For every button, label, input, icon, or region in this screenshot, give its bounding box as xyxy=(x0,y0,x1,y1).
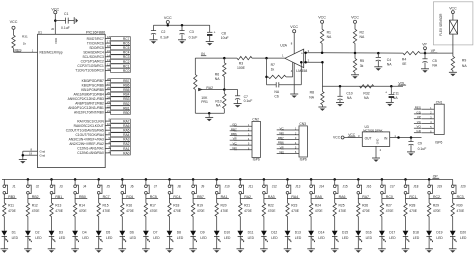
svg-text:470E: 470E xyxy=(409,209,418,213)
LED D12 xyxy=(261,231,278,243)
svg-text:15: 15 xyxy=(107,49,110,53)
wire xyxy=(98,236,100,248)
resistor R8 xyxy=(309,86,324,107)
jumper J10 xyxy=(215,184,230,194)
junction xyxy=(192,178,195,181)
U2A V- pin 4 / wire xyxy=(291,63,294,94)
svg-text:D17: D17 xyxy=(389,231,395,235)
net label OP xyxy=(432,175,439,179)
U1 pin 5 / net RA3 xyxy=(69,136,131,142)
svg-text:D6: D6 xyxy=(130,231,134,235)
wire xyxy=(51,217,53,231)
resistor R12 470E xyxy=(26,203,40,217)
U1 pin 9 / net RA7 xyxy=(77,118,130,124)
wire xyxy=(3,236,5,248)
resistor R23 470E xyxy=(286,203,300,217)
U1 pin 10 / net RA6 xyxy=(74,122,131,128)
svg-text:R13: R13 xyxy=(55,203,61,207)
ground xyxy=(1,249,9,253)
capacitor C7 0.1uF xyxy=(224,90,252,104)
U1 pin 6 / net RA4 xyxy=(75,131,130,137)
wire xyxy=(452,236,454,248)
wire xyxy=(310,236,312,248)
resistor R32 xyxy=(360,85,374,101)
U1 pin 22 / net RB1 xyxy=(68,104,130,110)
testpoint VCCO xyxy=(333,136,344,140)
capacitor C4 xyxy=(376,53,393,67)
resistor R29 470E xyxy=(427,203,441,217)
svg-text:NA: NA xyxy=(274,90,279,94)
svg-text:0.1uF: 0.1uF xyxy=(61,26,70,30)
svg-text:13: 13 xyxy=(107,58,110,62)
svg-text:RC1: RC1 xyxy=(123,64,130,68)
wire xyxy=(357,194,359,203)
svg-text:D8: D8 xyxy=(177,231,181,235)
svg-text:24: 24 xyxy=(107,95,110,99)
svg-text:RA7: RA7 xyxy=(123,120,130,124)
wire xyxy=(334,217,336,231)
svg-text:VCC: VCC xyxy=(333,136,341,140)
net label RB0 xyxy=(75,195,88,199)
resistor R2 xyxy=(353,23,365,53)
svg-text:470E: 470E xyxy=(32,209,41,213)
ground xyxy=(71,249,79,253)
svg-text:C1: C1 xyxy=(64,12,68,16)
ground xyxy=(421,69,429,73)
svg-text:LED: LED xyxy=(271,236,278,240)
wire xyxy=(381,194,383,203)
svg-text:D15: D15 xyxy=(342,231,348,235)
resistor R7 1k xyxy=(267,63,293,79)
wire xyxy=(3,217,5,231)
svg-text:470E: 470E xyxy=(8,209,17,213)
wire xyxy=(192,236,194,248)
wire xyxy=(216,217,218,231)
svg-text:470E: 470E xyxy=(55,209,64,213)
ground xyxy=(336,103,344,107)
junction xyxy=(397,136,400,139)
jumper J11 xyxy=(239,184,253,194)
wire xyxy=(334,179,336,184)
svg-text:LED: LED xyxy=(248,236,255,240)
U2A - input wire xyxy=(304,58,323,62)
wire xyxy=(405,236,407,248)
svg-text:NA: NA xyxy=(327,35,332,39)
wire xyxy=(239,236,241,248)
svg-text:J10: J10 xyxy=(225,184,230,188)
ground xyxy=(142,249,150,253)
svg-text:LED: LED xyxy=(12,236,19,240)
wire xyxy=(405,194,407,203)
svg-text:J12: J12 xyxy=(272,184,277,188)
svg-text:RC0: RC0 xyxy=(123,69,130,73)
svg-text:R21: R21 xyxy=(244,203,250,207)
capacitor C3 0.1uF xyxy=(179,25,197,40)
junction xyxy=(428,178,431,181)
ground xyxy=(355,249,363,253)
wire xyxy=(428,217,430,231)
wire xyxy=(405,217,407,231)
ground xyxy=(318,107,326,111)
svg-text:KBI1/PGM/RB5: KBI1/PGM/RB5 xyxy=(81,88,104,92)
wire decoupling rail xyxy=(154,24,210,26)
svg-text:10: 10 xyxy=(107,122,110,126)
svg-text:J11: J11 xyxy=(248,184,253,188)
svg-text:J8: J8 xyxy=(177,184,181,188)
wire xyxy=(192,217,194,231)
LED D16 xyxy=(355,231,372,243)
svg-text:RB3: RB3 xyxy=(123,97,130,101)
svg-text:J20: J20 xyxy=(461,184,466,188)
resistor R11 470E xyxy=(3,203,17,217)
resistor R14 470E xyxy=(73,203,87,217)
wire IN line xyxy=(195,57,237,59)
svg-text:+: + xyxy=(214,30,216,34)
svg-text:470E: 470E xyxy=(457,209,466,213)
svg-text:26: 26 xyxy=(107,86,110,90)
wire xyxy=(169,217,171,231)
net label RC3 xyxy=(452,195,465,199)
jumper J16 xyxy=(357,184,372,194)
junction xyxy=(390,85,393,88)
U3 pin 3 number xyxy=(358,134,360,138)
LED D2 xyxy=(25,231,42,243)
svg-text:D16: D16 xyxy=(366,231,372,235)
svg-text:J16: J16 xyxy=(366,184,371,188)
svg-text:RB0: RB0 xyxy=(123,111,130,115)
U1 pin 7 / net RA5 xyxy=(66,127,131,133)
LED D11 xyxy=(237,231,254,243)
svg-text:R11: R11 xyxy=(8,203,14,207)
svg-text:LED: LED xyxy=(295,236,302,240)
junction xyxy=(286,178,289,181)
junction xyxy=(27,178,30,181)
svg-text:NA: NA xyxy=(360,35,365,39)
svg-text:R32: R32 xyxy=(363,92,369,96)
svg-text:GND: GND xyxy=(376,139,379,145)
net label RB3 xyxy=(4,195,17,199)
wire xyxy=(51,194,53,203)
ground xyxy=(449,72,457,76)
junction xyxy=(215,178,218,181)
svg-text:AN8/P1B/INT2/RB2: AN8/P1B/INT2/RB2 xyxy=(75,102,104,106)
wire xyxy=(263,194,265,203)
svg-text:LM358: LM358 xyxy=(296,69,307,73)
svg-text:J14: J14 xyxy=(319,184,324,188)
svg-text:R29: R29 xyxy=(433,203,439,207)
resistor R27 470E xyxy=(380,203,394,217)
wire xyxy=(192,194,194,203)
resistor R26 470E xyxy=(357,203,371,217)
svg-text:RB1: RB1 xyxy=(123,106,130,110)
net label RA1 xyxy=(216,195,229,199)
net label RA3 xyxy=(264,195,277,199)
svg-text:NA: NA xyxy=(216,104,221,108)
jumper J9 xyxy=(192,184,205,194)
junction xyxy=(239,178,242,181)
svg-text:C10: C10 xyxy=(346,92,352,96)
U1 pin 3 / net RA1 xyxy=(77,145,130,151)
ground xyxy=(331,249,339,253)
junction xyxy=(410,136,413,139)
svg-text:J5: J5 xyxy=(107,184,111,188)
wire xyxy=(287,194,289,203)
U2A output pin 1 xyxy=(282,54,284,58)
LED D8 xyxy=(167,231,184,243)
svg-text:RA6: RA6 xyxy=(123,124,130,128)
svg-text:AN2/C2IN+/VREF-/RA2: AN2/C2IN+/VREF-/RA2 xyxy=(69,142,104,146)
wire xyxy=(428,236,430,248)
svg-text:AN9/CCP2/C12IN2-/RB3: AN9/CCP2/C12IN2-/RB3 xyxy=(68,97,104,101)
svg-text:+: + xyxy=(385,91,387,95)
wire xyxy=(357,179,359,184)
U1 pin 13 / net RC2 xyxy=(81,58,131,64)
svg-text:J2: J2 xyxy=(36,184,40,188)
wire xyxy=(145,236,147,248)
svg-text:Gnd: Gnd xyxy=(40,154,46,158)
svg-text:470E: 470E xyxy=(79,209,88,213)
junction xyxy=(339,85,342,88)
svg-text:C12IN1-/AN1/RA1: C12IN1-/AN1/RA1 xyxy=(77,147,104,151)
LED D19 xyxy=(426,231,443,243)
svg-text:470E: 470E xyxy=(221,209,230,213)
wire xyxy=(169,194,171,203)
svg-text:LED: LED xyxy=(318,236,325,240)
svg-text:D11: D11 xyxy=(248,231,254,235)
ground xyxy=(166,249,174,253)
wire xyxy=(192,179,194,184)
svg-text:J1: J1 xyxy=(12,184,16,188)
svg-text:D5: D5 xyxy=(106,231,110,235)
wire xyxy=(27,179,29,184)
svg-text:RA1: RA1 xyxy=(123,147,130,151)
wire xyxy=(263,236,265,248)
svg-text:R18: R18 xyxy=(173,203,179,207)
svg-text:470E: 470E xyxy=(362,209,371,213)
svg-text:NA: NA xyxy=(462,64,467,68)
LED D3 xyxy=(49,231,66,243)
svg-text:CCP1/P1A/RC2: CCP1/P1A/RC2 xyxy=(81,60,104,64)
svg-text:ISP6: ISP6 xyxy=(435,140,442,144)
svg-text:470E: 470E xyxy=(268,209,277,213)
capacitor C8 10uF xyxy=(207,25,229,41)
wire xyxy=(27,217,29,231)
LED D6 xyxy=(119,231,136,243)
resistor R16 470E xyxy=(121,203,135,217)
svg-text:R7: R7 xyxy=(271,63,275,67)
svg-text:8: 8 xyxy=(31,147,33,151)
wire xyxy=(239,194,241,203)
junction xyxy=(208,112,211,115)
svg-text:NA: NA xyxy=(215,77,220,81)
svg-text:+: + xyxy=(301,52,303,56)
jumper J2 xyxy=(27,184,40,194)
svg-text:RC6: RC6 xyxy=(123,42,130,46)
svg-text:CCP2/T1OSI/RC1: CCP2/T1OSI/RC1 xyxy=(77,64,104,68)
svg-text:LED: LED xyxy=(224,236,231,240)
svg-text:R2: R2 xyxy=(360,30,364,34)
LED D14 xyxy=(308,231,325,243)
svg-text:VCC: VCC xyxy=(164,16,172,20)
svg-text:LED: LED xyxy=(59,236,66,240)
svg-text:R31: R31 xyxy=(22,34,28,38)
junction xyxy=(265,57,268,60)
wire xyxy=(74,194,76,203)
resistor R17 470E xyxy=(144,203,158,217)
svg-text:470E: 470E xyxy=(103,209,112,213)
junction xyxy=(167,24,170,27)
net label RA5 xyxy=(311,195,324,199)
op-amp U2A LM358 xyxy=(280,44,307,73)
svg-text:C7: C7 xyxy=(244,95,248,99)
jumper J19 xyxy=(428,184,443,194)
power VCC symbol (U2A) xyxy=(290,25,298,54)
jumper J17 xyxy=(381,184,396,194)
wire xyxy=(169,236,171,248)
wire xyxy=(452,217,454,231)
wire xyxy=(287,236,289,248)
LED D18 xyxy=(403,231,420,243)
LED D20 xyxy=(450,231,467,243)
wire xyxy=(300,61,303,85)
svg-text:RB4: RB4 xyxy=(123,93,130,97)
wire OP rail xyxy=(2,178,453,180)
svg-text:PIC16F886: PIC16F886 xyxy=(86,31,105,35)
U3 ground pin 2 xyxy=(376,146,382,158)
wire xyxy=(98,179,100,184)
wire xyxy=(121,179,123,184)
svg-text:28: 28 xyxy=(107,77,110,81)
svg-text:LED: LED xyxy=(413,236,420,240)
svg-text:T1CKI/T1OSO/RC0: T1CKI/T1OSO/RC0 xyxy=(75,69,104,73)
svg-text:LED: LED xyxy=(106,236,113,240)
resistor R22 470E xyxy=(262,203,276,217)
svg-text:18: 18 xyxy=(107,35,110,39)
svg-text:R9: R9 xyxy=(462,59,466,63)
wire xyxy=(169,179,171,184)
wire xyxy=(121,194,123,203)
U1 pin 18 / net RC7 xyxy=(87,35,131,41)
svg-text:0.1uF: 0.1uF xyxy=(244,99,253,103)
wire VP line xyxy=(322,52,403,54)
ground xyxy=(213,249,221,253)
jumper J4 xyxy=(74,184,87,194)
U1 pin 17 / net RC6 xyxy=(87,40,130,46)
svg-text:LED: LED xyxy=(436,236,443,240)
svg-text:RB5: RB5 xyxy=(123,88,130,92)
svg-text:PR1: PR1 xyxy=(201,100,208,104)
svg-text:19: 19 xyxy=(29,151,32,155)
ground xyxy=(119,249,127,253)
wire op-amp output xyxy=(252,57,285,59)
svg-text:10uF: 10uF xyxy=(221,36,229,40)
svg-text:470E: 470E xyxy=(386,209,395,213)
svg-text:1: 1 xyxy=(32,48,34,52)
ground xyxy=(402,249,410,253)
svg-text:CN1: CN1 xyxy=(436,100,443,104)
wire xyxy=(74,217,76,231)
jumper J6 xyxy=(121,184,134,194)
wire xyxy=(216,236,218,248)
wire xyxy=(310,194,312,203)
net label IN xyxy=(201,52,206,56)
svg-text:LED: LED xyxy=(130,236,137,240)
testpoint VP xyxy=(422,43,427,54)
ground xyxy=(290,94,298,98)
wire xyxy=(74,236,76,248)
wire xyxy=(51,179,53,184)
svg-text:RA6/OSC2/CLKOUT: RA6/OSC2/CLKOUT xyxy=(74,124,104,128)
U1 ground pins 8/19 xyxy=(22,147,46,159)
resistor R21 470E xyxy=(239,203,253,217)
svg-text:470E: 470E xyxy=(150,209,159,213)
svg-text:0E: 0E xyxy=(402,62,407,66)
svg-text:R22: R22 xyxy=(268,203,274,207)
ground xyxy=(237,249,245,253)
ground xyxy=(206,42,214,46)
resistor R9 xyxy=(451,53,467,72)
svg-text:D13: D13 xyxy=(295,231,301,235)
ground xyxy=(178,40,186,44)
ground xyxy=(425,249,433,253)
svg-text:470E: 470E xyxy=(291,209,300,213)
wire xyxy=(381,236,383,248)
svg-text:C1OUT/T0CKI/RA4: C1OUT/T0CKI/RA4 xyxy=(75,133,104,137)
flex sensor xyxy=(433,2,473,53)
wire xyxy=(121,217,123,231)
svg-text:AN11/KBI0/P1D/RB4: AN11/KBI0/P1D/RB4 xyxy=(74,93,104,97)
jumper J18 xyxy=(404,184,419,194)
svg-text:CN2: CN2 xyxy=(252,118,259,122)
junction xyxy=(424,52,427,55)
svg-text:RC7: RC7 xyxy=(123,37,130,41)
wire input tie xyxy=(304,52,307,64)
junction xyxy=(74,178,77,181)
svg-text:D12: D12 xyxy=(271,231,277,235)
wire xyxy=(14,48,38,52)
svg-text:CN3: CN3 xyxy=(299,122,306,126)
svg-text:470E: 470E xyxy=(173,209,182,213)
net label RC2 xyxy=(429,195,442,199)
junction xyxy=(223,57,226,60)
jumper J3 xyxy=(50,184,63,194)
junction xyxy=(265,76,268,79)
U3 output wire xyxy=(390,134,422,138)
net label RB2 xyxy=(28,195,41,199)
resistor R31 xyxy=(12,34,28,48)
junction xyxy=(97,178,100,181)
wire xyxy=(321,61,324,86)
junction xyxy=(377,52,380,55)
resistor R10 xyxy=(215,90,226,114)
wire xyxy=(310,179,312,184)
svg-text:1k: 1k xyxy=(23,41,27,45)
svg-text:VCC: VCC xyxy=(449,6,457,10)
svg-text:R28: R28 xyxy=(409,203,415,207)
svg-text:25: 25 xyxy=(107,91,110,95)
svg-text:J6: J6 xyxy=(130,184,134,188)
svg-text:J4: J4 xyxy=(83,184,87,188)
wire pot left leg xyxy=(194,58,196,74)
svg-text:J3: J3 xyxy=(59,184,63,188)
svg-text:470E: 470E xyxy=(126,209,135,213)
svg-text:LED: LED xyxy=(460,236,467,240)
resistor R25 470E xyxy=(333,203,347,217)
resistor R15 470E xyxy=(97,203,111,217)
junction xyxy=(357,178,360,181)
svg-text:RB6: RB6 xyxy=(123,84,130,88)
svg-text:RA2: RA2 xyxy=(123,142,130,146)
